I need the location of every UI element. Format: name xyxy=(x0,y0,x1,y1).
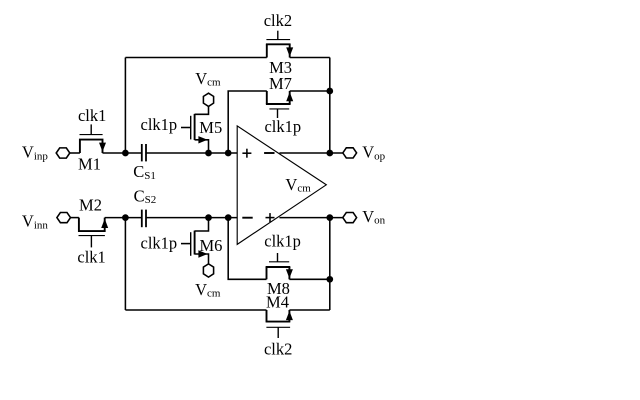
node Von junction xyxy=(326,214,333,221)
svg-text:clk1p: clk1p xyxy=(264,117,301,136)
port Von xyxy=(343,213,357,223)
op-amp minus bottom xyxy=(242,217,252,219)
svg-text:clk2: clk2 xyxy=(264,11,292,30)
wire M8 to right rail xyxy=(289,278,329,280)
port Vinp xyxy=(56,148,70,158)
wire CS2 to op-amp xyxy=(146,217,237,219)
capacitor CS1 xyxy=(142,144,146,161)
node op-amp plus input junction xyxy=(225,150,232,157)
transistor M7 xyxy=(266,91,293,118)
svg-text:M6: M6 xyxy=(200,236,223,255)
wire M1 to CS1 xyxy=(103,152,142,154)
svg-text:clk1p: clk1p xyxy=(141,233,178,252)
node top-left junction xyxy=(122,150,129,157)
op-amp plus top xyxy=(242,149,251,158)
op-amp U1 xyxy=(237,126,326,244)
transistor M8 xyxy=(266,253,293,279)
svg-text:Vcm: Vcm xyxy=(195,280,221,300)
svg-text:Vop: Vop xyxy=(362,143,385,163)
svg-text:Vinp: Vinp xyxy=(22,143,48,163)
svg-text:M5: M5 xyxy=(199,118,222,137)
svg-text:M2: M2 xyxy=(79,195,102,214)
svg-text:M7: M7 xyxy=(269,74,292,93)
svg-text:Vcm: Vcm xyxy=(285,175,311,195)
capacitor CS2 xyxy=(142,210,146,228)
port Vcm top xyxy=(203,93,213,106)
transistor M2 xyxy=(79,218,109,248)
wire right rail top xyxy=(329,58,331,154)
node M6 drain junction xyxy=(205,214,212,221)
svg-text:Vcm: Vcm xyxy=(195,69,221,89)
transistor M1 xyxy=(80,124,107,153)
svg-text:clk1p: clk1p xyxy=(264,231,301,250)
wire op-amp output to Von xyxy=(279,217,342,219)
transistor M6 xyxy=(181,218,209,264)
wire left rail down to M4 xyxy=(124,218,126,310)
wire right rail bottom xyxy=(329,218,331,310)
svg-text:Von: Von xyxy=(362,207,385,227)
svg-text:M1: M1 xyxy=(78,154,101,173)
node M5 drain junction xyxy=(205,150,212,157)
wire plus-input up to M7 xyxy=(228,91,267,153)
svg-text:clk1: clk1 xyxy=(77,247,105,266)
wire M4 to right rail xyxy=(289,309,329,311)
svg-text:clk1: clk1 xyxy=(78,106,106,125)
wire M7 to right rail xyxy=(290,90,330,92)
port Vinn xyxy=(57,213,71,223)
op-amp plus bottom xyxy=(266,213,275,222)
wire op-amp output to Vop xyxy=(279,152,342,154)
transistor M5 xyxy=(181,106,209,153)
node bottom-left junction xyxy=(122,214,129,221)
wire M4 left xyxy=(125,309,266,311)
wire CS1 to op-amp xyxy=(146,152,237,154)
wire minus-input down to M8 xyxy=(228,218,266,280)
node op-amp minus input junction xyxy=(225,214,232,221)
svg-text:CS2: CS2 xyxy=(134,186,157,206)
svg-text:Vinn: Vinn xyxy=(22,212,48,232)
svg-text:clk1p: clk1p xyxy=(141,115,178,134)
wire M2 to CS2 xyxy=(105,217,142,219)
wire M3 to right rail xyxy=(290,57,330,59)
svg-text:clk2: clk2 xyxy=(264,339,292,358)
svg-text:CS1: CS1 xyxy=(133,162,156,182)
svg-text:M4: M4 xyxy=(266,293,289,312)
wire Vinp to M1 xyxy=(70,152,80,154)
transistor M4 xyxy=(266,310,293,338)
transistor M3 xyxy=(266,31,293,58)
port Vcm bottom xyxy=(203,264,213,277)
node M8 rail junction xyxy=(326,276,333,283)
wire Vinn to M2 xyxy=(71,217,79,219)
node Vop junction xyxy=(326,150,333,157)
wire left rail up to M3 xyxy=(124,58,126,154)
wire M3 left xyxy=(125,57,266,59)
op-amp minus top xyxy=(264,152,274,154)
port Vop xyxy=(343,148,357,158)
node M7 rail junction xyxy=(326,88,333,95)
